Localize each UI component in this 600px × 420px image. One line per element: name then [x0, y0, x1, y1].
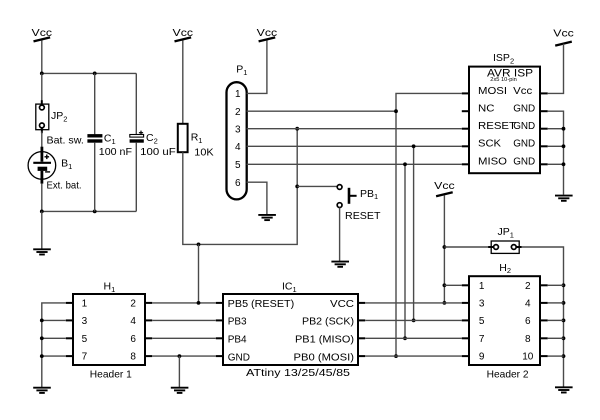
label ATtiny 13/25/45/85 — [246, 367, 350, 379]
wire P1 pin1 to Vcc — [247, 41, 267, 94]
svg-text:PB2 (SCK): PB2 (SCK) — [302, 317, 354, 328]
connector P1 body — [227, 82, 247, 199]
svg-text:B1: B1 — [61, 158, 72, 171]
label H2 — [499, 262, 511, 275]
wire C2 bottom — [135, 143, 137, 212]
wire IC1 VCC row — [365, 302, 462, 304]
wire H1 pin8 to IC1 GND — [152, 355, 216, 357]
svg-text:1: 1 — [479, 281, 485, 292]
wire R1 to reset link — [183, 129, 297, 245]
wire Vcc to R1 — [182, 41, 184, 124]
pin labels IC1 right — [294, 299, 355, 363]
power Vcc symbol (above JP1) — [434, 180, 455, 196]
wire reset link to IC1 PB5 — [198, 244, 200, 303]
ic IC1 body (ATtiny) — [223, 294, 358, 365]
svg-text:Ext. bat.: Ext. bat. — [47, 180, 82, 192]
svg-text:NC: NC — [478, 104, 495, 115]
label Bat. sw. — [47, 134, 84, 146]
svg-text:3: 3 — [235, 124, 241, 135]
wire H1 pin4 to IC1 PB3 — [152, 319, 216, 321]
power Vcc symbol (battery rail) — [32, 27, 53, 41]
svg-text:PB3: PB3 — [228, 317, 247, 328]
wire Vcc top bus — [42, 72, 137, 74]
wire IC1 PB1 row — [365, 337, 462, 339]
svg-text:Vcc: Vcc — [173, 27, 194, 39]
svg-text:100 nF: 100 nF — [99, 146, 132, 158]
label C2 — [146, 132, 158, 145]
svg-text:9: 9 — [479, 352, 485, 363]
svg-text:6: 6 — [235, 178, 241, 189]
pin labels ISP2 left — [478, 86, 516, 168]
svg-text:Bat. sw.: Bat. sw. — [47, 134, 84, 146]
svg-text:3: 3 — [479, 299, 485, 310]
svg-text:3: 3 — [82, 316, 88, 327]
ground (H1 pin 8) — [171, 388, 189, 393]
label P1 — [236, 64, 247, 77]
resistor R1 — [178, 124, 188, 152]
svg-text:MISO: MISO — [478, 157, 507, 168]
wire ISP2 Vcc pin — [548, 44, 564, 94]
label PB1 — [360, 188, 378, 201]
svg-text:Vcc: Vcc — [32, 27, 53, 39]
wire battery to ground bus — [41, 183, 43, 211]
wire IC1 PB2 row — [365, 319, 462, 321]
node RESET row junction — [295, 127, 299, 131]
svg-text:RESET: RESET — [345, 210, 381, 222]
svg-text:ISP2: ISP2 — [493, 52, 514, 65]
push button PB1 — [337, 185, 356, 208]
svg-text:MOSI: MOSI — [478, 86, 507, 97]
header H2 body — [469, 276, 540, 365]
node H2 right column junctions — [562, 283, 566, 358]
svg-text:8: 8 — [130, 352, 136, 363]
svg-text:GND: GND — [513, 157, 535, 168]
svg-text:Vcc: Vcc — [434, 180, 455, 192]
power Vcc symbol (above R1) — [173, 27, 194, 41]
svg-text:JP2: JP2 — [51, 110, 67, 123]
label Header 2 — [487, 369, 529, 381]
node PB5 junction — [197, 301, 201, 305]
svg-text:4: 4 — [130, 316, 136, 327]
label 100 uF — [140, 146, 176, 158]
wire C2 top — [135, 73, 137, 134]
wire Vcc rail stem — [41, 41, 43, 74]
wire bus to ground — [41, 211, 43, 248]
ground (H1 left) — [33, 388, 51, 393]
ground (battery rail) — [33, 249, 51, 254]
capacitor C2 — [130, 131, 144, 143]
wire H1 odd pins to ground — [42, 303, 66, 387]
svg-text:7: 7 — [82, 352, 88, 363]
svg-text:GND: GND — [513, 121, 535, 132]
svg-text:P1: P1 — [236, 64, 247, 77]
svg-text:PB4: PB4 — [228, 335, 247, 346]
wire rail to JP2 — [41, 73, 43, 105]
wire P1 pin6 to ground — [247, 182, 267, 214]
svg-text:6: 6 — [130, 334, 136, 345]
node reset link junction — [197, 243, 201, 247]
node SCK junctions — [412, 144, 416, 322]
node MISO junctions — [403, 162, 407, 340]
wire P1 pin2 (MOSI net) — [247, 110, 396, 112]
svg-text:VCC: VCC — [330, 299, 354, 310]
wire H2 even pins to column — [548, 285, 564, 356]
svg-text:2x5 10-pin: 2x5 10-pin — [490, 77, 517, 83]
wire bottom ground bus — [42, 210, 137, 212]
svg-text:H1: H1 — [104, 281, 116, 294]
pin numbers H1 — [82, 299, 137, 363]
svg-text:2: 2 — [235, 107, 241, 118]
wire Vcc4 column — [443, 195, 445, 303]
node H1 ground junctions — [40, 319, 44, 359]
label IC1 — [282, 281, 297, 294]
wire Vcc to JP1 — [444, 246, 488, 248]
svg-text:2: 2 — [130, 299, 136, 310]
pins IC1 stubs — [216, 303, 365, 356]
ground (PB1) — [331, 262, 349, 267]
connector ISP2 body — [469, 67, 540, 174]
pins H1 stubs — [66, 303, 152, 356]
svg-text:Header 2: Header 2 — [487, 369, 529, 381]
label 2x5 10-pin — [490, 77, 517, 83]
label H1 — [104, 281, 116, 294]
ground (ISP2) — [555, 196, 573, 201]
label RESET (push button) — [345, 210, 381, 222]
svg-text:1: 1 — [235, 89, 241, 100]
node ground bus junctions — [40, 210, 97, 214]
pin labels ISP2 right — [513, 86, 535, 168]
label Header 1 — [90, 369, 132, 381]
svg-text:PB5 (RESET): PB5 (RESET) — [228, 299, 295, 310]
wire RESET to PB1 — [297, 185, 337, 187]
wire P1 pin3 (RESET net) — [247, 128, 462, 130]
power Vcc symbol (ISP supply) — [553, 28, 574, 46]
wire H1 pin6 to IC1 PB4 — [152, 337, 216, 339]
svg-text:2: 2 — [525, 281, 531, 292]
svg-text:7: 7 — [479, 334, 485, 345]
svg-text:Header 1: Header 1 — [90, 369, 132, 381]
pin numbers P1 1-6 — [235, 89, 241, 189]
node MOSI junctions — [394, 109, 398, 358]
pins H2 stubs — [462, 285, 548, 356]
wire MISO riser — [404, 164, 406, 338]
svg-text:10: 10 — [522, 352, 534, 363]
node H1 pin8 ground junction — [178, 354, 182, 358]
svg-text:4: 4 — [525, 299, 531, 310]
svg-text:ATtiny 13/25/45/85: ATtiny 13/25/45/85 — [246, 367, 350, 379]
wire SCK riser — [413, 146, 415, 320]
jumper JP1 — [488, 241, 522, 253]
label ISP2 — [493, 52, 514, 65]
wire H1 pin2 to IC1 PB5 — [152, 302, 216, 304]
label B1 — [61, 158, 72, 171]
node Vcc bus junctions — [40, 72, 97, 76]
svg-text:5: 5 — [82, 334, 88, 345]
label C1 — [104, 133, 116, 146]
svg-text:8: 8 — [525, 334, 531, 345]
svg-text:JP1: JP1 — [498, 226, 514, 239]
wire IC1 PB0 row — [365, 355, 462, 357]
label AVR ISP — [487, 68, 533, 80]
wire P1 pin5 (MISO net) — [247, 163, 462, 165]
svg-text:4: 4 — [235, 142, 241, 153]
ground (H2 column) — [555, 387, 573, 392]
node ISP2 GND junctions — [562, 127, 566, 166]
svg-text:R1: R1 — [191, 132, 203, 145]
jumper JP2 (battery switch) — [36, 104, 49, 130]
capacitor C1 — [87, 134, 102, 143]
ground (P1 pin 6) — [258, 215, 276, 220]
svg-text:Vcc: Vcc — [257, 27, 278, 39]
svg-text:GND: GND — [513, 139, 535, 150]
svg-text:GND: GND — [228, 352, 250, 363]
svg-text:5: 5 — [479, 316, 485, 327]
label Ext. bat. — [47, 180, 82, 192]
wire C1 top — [94, 73, 96, 134]
svg-text:IC1: IC1 — [282, 281, 297, 294]
wire H1 pin8 ground drop — [178, 356, 180, 387]
node PB1 branch junction — [295, 185, 299, 189]
svg-text:RESET: RESET — [478, 121, 516, 132]
label JP1 — [498, 226, 514, 239]
svg-text:SCK: SCK — [478, 139, 501, 150]
svg-text:PB1: PB1 — [360, 188, 378, 201]
svg-text:Vcc: Vcc — [553, 28, 574, 40]
wire MOSI riser — [396, 93, 462, 356]
wire JP2 to battery — [41, 128, 43, 153]
svg-text:H2: H2 — [499, 262, 511, 275]
label R1 — [191, 132, 203, 145]
wire P1 pin4 (SCK net) — [247, 145, 462, 147]
node Vcc4 junctions — [443, 245, 447, 305]
wire C1 bottom — [94, 143, 96, 212]
label 100 nF — [99, 146, 132, 158]
label JP2 — [51, 110, 67, 123]
svg-text:Vcc: Vcc — [513, 86, 532, 97]
svg-text:PB1 (MISO): PB1 (MISO) — [295, 335, 354, 346]
svg-text:6: 6 — [525, 316, 531, 327]
battery B1 (external battery) — [28, 147, 56, 184]
pins ISP2 stubs — [462, 93, 548, 164]
wire PB1 to ground — [339, 208, 341, 261]
svg-text:GND: GND — [513, 104, 535, 115]
svg-text:100 uF: 100 uF — [140, 146, 176, 158]
pin numbers H2 — [479, 281, 534, 363]
label 10K — [194, 146, 213, 158]
svg-text:10K: 10K — [194, 146, 213, 158]
svg-text:PB0 (MOSI): PB0 (MOSI) — [294, 352, 355, 363]
power Vcc symbol (above P1 pin 1) — [257, 27, 278, 41]
svg-text:C2: C2 — [146, 132, 158, 145]
wire ISP2 GND comb — [548, 111, 564, 195]
svg-text:1: 1 — [82, 299, 88, 310]
svg-text:C1: C1 — [104, 133, 116, 146]
header H1 body — [73, 294, 145, 365]
wire H2 pin1 to Vcc — [444, 284, 461, 286]
svg-text:5: 5 — [235, 160, 241, 171]
pin labels IC1 left — [228, 299, 295, 363]
wire JP1 to H2 ground column — [522, 247, 564, 387]
